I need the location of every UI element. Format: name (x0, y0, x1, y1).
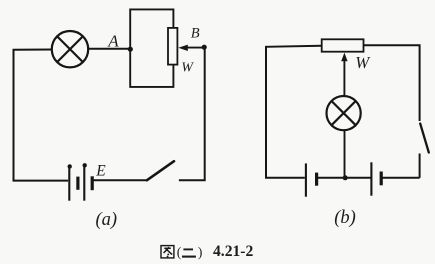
wire: right side of circuit (a) from node B down to bottom (179, 47, 205, 180)
battery cell right (b) long plate (370, 162, 372, 195)
svg-text:(a): (a) (96, 210, 118, 230)
switch S2 blade (b) (420, 124, 429, 153)
battery E cell 2 long plate tip mark (83, 163, 87, 167)
svg-text:B: B (191, 25, 200, 41)
svg-text:W: W (355, 53, 371, 72)
wire: circuit (a) left side loop (14, 50, 69, 181)
battery E cell 1 long plate tip mark (68, 164, 72, 168)
lamp DS1 (circle with X) (52, 31, 88, 67)
caption character 二 (182, 249, 196, 256)
lamp DS2 (circle with X) (327, 96, 361, 130)
battery cell right (b) short plate (380, 172, 383, 186)
svg-text:A: A (107, 31, 119, 50)
wire: circuit (b) left side (266, 46, 322, 178)
battery E cell 1 long plate (68, 166, 70, 200)
switch S1 blade (a) (147, 161, 174, 180)
caption character 图 (161, 246, 174, 258)
wire: circuit (b) lower right vertical (419, 154, 421, 178)
battery cell left (b) long plate (305, 163, 307, 196)
potentiometer W resistor body (b) (322, 39, 364, 51)
wire: lamp (b) down to bottom junction (344, 130, 346, 178)
battery E cell 1 short plate (76, 177, 79, 190)
wire: lamp to node A (88, 48, 130, 50)
wire: right battery to right corner (b) (381, 177, 419, 179)
svg-text:(: ( (177, 244, 182, 259)
svg-text:): ) (198, 244, 203, 259)
wiper arrow of potentiometer W (a) (178, 45, 204, 51)
wire: between junction and right battery (b) (345, 177, 371, 179)
battery E cell 2 long plate (83, 165, 85, 200)
node A junction dot (128, 47, 133, 52)
battery cell left (b) short plate (315, 173, 318, 186)
junction dot (b) (343, 175, 348, 180)
node B junction dot (202, 45, 207, 50)
svg-text:4.21-2: 4.21-2 (213, 243, 253, 260)
svg-text:W: W (181, 59, 194, 74)
battery E cell 2 short plate (91, 176, 94, 190)
wire: circuit (b) top right (364, 45, 420, 121)
svg-text:E: E (95, 162, 106, 179)
wiper arrow of potentiometer W (b) (341, 53, 347, 96)
potentiometer W resistor body (a) (168, 28, 177, 65)
wire: potentiometer loop rectangle (a) (130, 9, 173, 87)
svg-text:(b): (b) (334, 208, 356, 228)
wire: between left battery and junction (b) (317, 177, 346, 179)
wire: battery to switch (a) (93, 179, 148, 181)
